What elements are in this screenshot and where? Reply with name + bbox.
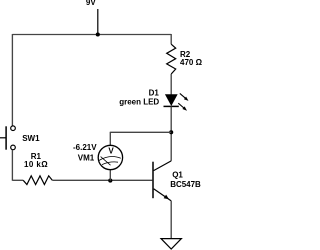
diode D1 triangle — [166, 95, 177, 106]
voltmeter VM1 body — [98, 145, 122, 169]
node junction LED/voltmeter/collector — [169, 130, 173, 134]
resistor R1 — [23, 176, 52, 185]
switch SW1 pushbutton — [0, 126, 15, 150]
wire R2 to LED — [170, 74, 172, 95]
wire voltmeter bottom vertical — [109, 170, 111, 181]
transistor Q1 — [153, 161, 171, 201]
wire base row right — [52, 179, 152, 181]
svg-text:D1: D1 — [149, 89, 160, 98]
LED arrow 2 — [178, 103, 187, 111]
wire LED to collector node — [170, 106, 172, 160]
svg-text:green LED: green LED — [119, 98, 159, 107]
svg-text:-6.21V: -6.21V — [73, 143, 97, 152]
wire right vertical to R2 — [170, 34, 172, 44]
svg-text:SW1: SW1 — [22, 134, 40, 143]
node junction 9V/top wire — [96, 32, 100, 36]
wire base row left — [12, 179, 23, 181]
wire voltmeter top horizontal — [110, 131, 171, 133]
svg-text:Q1: Q1 — [172, 171, 183, 180]
wire top horizontal — [12, 34, 171, 36]
node junction voltmeter bottom — [108, 179, 112, 183]
resistor R2 — [167, 44, 176, 74]
wire left vertical upper — [11, 34, 13, 126]
svg-text:10 kΩ: 10 kΩ — [24, 160, 48, 169]
diode D1 cathode bar — [164, 105, 179, 107]
svg-text:BC547B: BC547B — [170, 180, 201, 189]
LED arrow 1 — [180, 93, 189, 101]
svg-text:VM1: VM1 — [78, 153, 95, 162]
wire emitter to ground — [170, 201, 172, 239]
svg-text:9V: 9V — [86, 0, 96, 7]
svg-text:470 Ω: 470 Ω — [180, 58, 202, 67]
svg-text:V: V — [108, 147, 114, 156]
wire voltmeter top vertical — [109, 132, 111, 146]
wire 9V stub — [97, 9, 99, 35]
wire left vertical lower — [11, 150, 13, 181]
ground — [161, 239, 181, 249]
